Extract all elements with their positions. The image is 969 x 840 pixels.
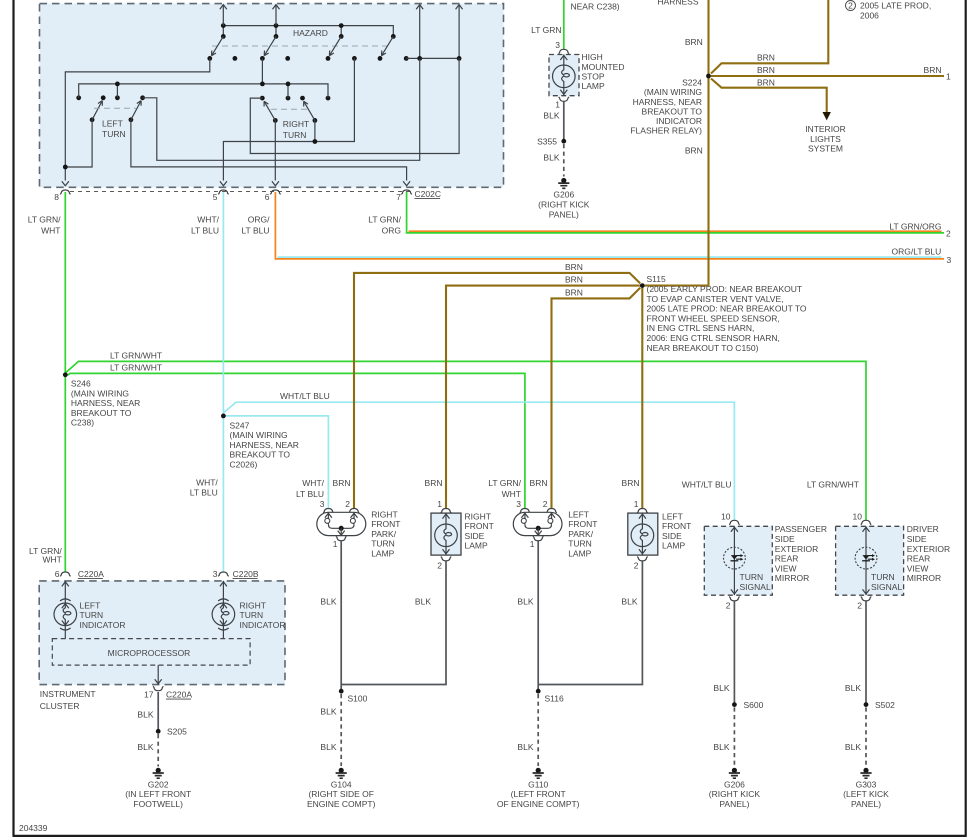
wire BLK: S600 to G206: [713, 707, 734, 766]
svg-text:CLUSTER: CLUSTER: [40, 701, 80, 711]
svg-text:C220A: C220A: [166, 690, 192, 700]
svg-text:10: 10: [853, 511, 863, 521]
wire BLK: S205 to G202: [137, 734, 158, 767]
svg-text:3: 3: [213, 569, 218, 579]
wire ORG/LT BLU: pin 6 to right edge: [275, 192, 951, 265]
svg-text:VIEW: VIEW: [907, 563, 929, 573]
microprocessor: [52, 639, 250, 666]
svg-text:PASSENGER: PASSENGER: [775, 524, 827, 534]
svg-text:HARNESS: HARNESS: [657, 0, 698, 7]
wire BLK: left front park/turn lamp to S116: [517, 541, 538, 692]
svg-text:EXTERIOR: EXTERIOR: [775, 544, 818, 554]
svg-text:G202: G202: [148, 779, 169, 789]
svg-text:C220A: C220A: [78, 569, 104, 579]
svg-text:BREAKOUT TO: BREAKOUT TO: [71, 408, 132, 418]
wire BLK: passenger mirror to S600: [713, 601, 734, 705]
splice S224: [630, 74, 711, 136]
svg-text:WHT: WHT: [42, 555, 61, 565]
svg-text:1: 1: [555, 100, 560, 110]
splice S100: [339, 689, 368, 704]
svg-text:BLK: BLK: [543, 111, 559, 121]
wire BRN: S115 down to left front side lamp: [641, 288, 643, 509]
svg-text:C238): C238): [71, 418, 94, 428]
svg-text:TO EVAP CANISTER VENT VALVE,: TO EVAP CANISTER VENT VALVE,: [647, 294, 784, 304]
svg-text:HAZARD: HAZARD: [293, 28, 328, 38]
svg-text:BLK: BLK: [845, 742, 861, 752]
svg-text:FRONT: FRONT: [465, 521, 494, 531]
multifunction switch assembly box: [40, 4, 504, 188]
wire label LT GRN/WHT above cluster pin 6: [29, 546, 62, 565]
svg-text:TURN: TURN: [568, 539, 592, 549]
svg-text:TURN: TURN: [740, 572, 764, 582]
svg-text:HIGH: HIGH: [582, 52, 603, 62]
svg-text:6: 6: [55, 569, 60, 579]
wire BLK: driver mirror to S502: [845, 601, 866, 705]
svg-text:LT GRN/WHT: LT GRN/WHT: [110, 350, 162, 360]
svg-text:BRN: BRN: [924, 65, 942, 75]
wire WHT/LT BLU: pin 5 to S247 to cluster pin 3: [222, 192, 224, 572]
svg-text:2: 2: [848, 0, 853, 10]
svg-text:C202C: C202C: [415, 189, 441, 199]
svg-text:(RIGHT KICK: (RIGHT KICK: [538, 200, 590, 210]
svg-text:2: 2: [437, 560, 442, 570]
svg-text:17: 17: [144, 690, 154, 700]
wire BLK: stop lamp to S355: [543, 101, 563, 141]
svg-text:LT GRN: LT GRN: [531, 25, 561, 35]
svg-text:FRONT WHEEL SPEED SENSOR,: FRONT WHEEL SPEED SENSOR,: [647, 313, 780, 323]
svg-text:LT GRN/: LT GRN/: [488, 478, 521, 488]
svg-text:1: 1: [437, 499, 442, 509]
svg-text:INDICATOR: INDICATOR: [80, 620, 126, 630]
svg-text:MIRROR: MIRROR: [775, 573, 809, 583]
ground G202: [125, 768, 191, 809]
svg-text:BRN: BRN: [622, 478, 640, 488]
svg-text:BLK: BLK: [137, 742, 153, 752]
svg-text:(LEFT KICK: (LEFT KICK: [843, 789, 889, 799]
svg-text:FRONT: FRONT: [662, 521, 691, 531]
svg-text:S600: S600: [744, 700, 764, 710]
svg-text:LT GRN/: LT GRN/: [28, 215, 61, 225]
wire LT GRN: stop lamp feed: [531, 0, 564, 50]
svg-text:BREAKOUT TO: BREAKOUT TO: [230, 450, 291, 460]
wire BLK: S355 to G206: [543, 144, 563, 177]
svg-text:LT GRN/ORG: LT GRN/ORG: [889, 221, 941, 231]
ground G303: [843, 768, 889, 809]
hazard gang line: [212, 45, 391, 47]
svg-text:SIDE: SIDE: [465, 531, 485, 541]
svg-text:ENGINE COMPT): ENGINE COMPT): [307, 799, 376, 809]
svg-text:S100: S100: [348, 694, 368, 704]
svg-text:RIGHT: RIGHT: [240, 600, 266, 610]
splice S355: [537, 137, 566, 147]
svg-text:BLK: BLK: [415, 596, 431, 606]
svg-text:EXTERIOR: EXTERIOR: [907, 544, 950, 554]
ground G104: [307, 768, 376, 809]
svg-text:FRONT: FRONT: [568, 519, 597, 529]
splice S116: [536, 689, 564, 704]
svg-text:(MAIN WIRING: (MAIN WIRING: [230, 430, 288, 440]
svg-text:BLK: BLK: [137, 710, 153, 720]
svg-text:INDICATOR: INDICATOR: [240, 620, 286, 630]
svg-text:ORG/: ORG/: [248, 215, 270, 225]
wire label LT GRN/ORG (pin 7): [368, 215, 401, 236]
svg-text:OF ENGINE COMPT): OF ENGINE COMPT): [497, 799, 580, 809]
svg-text:BLK: BLK: [320, 596, 336, 606]
svg-text:G206: G206: [553, 190, 574, 200]
svg-text:ORG: ORG: [382, 225, 401, 235]
wire BLK: S100 to G104: [320, 694, 341, 766]
svg-text:BLK: BLK: [320, 742, 336, 752]
svg-text:G206: G206: [724, 779, 745, 789]
svg-text:PANEL): PANEL): [851, 799, 881, 809]
svg-text:LAMP: LAMP: [465, 541, 488, 551]
wire label WHT/LT BLU above cluster pin 3: [190, 478, 219, 498]
svg-text:SIDE: SIDE: [775, 534, 795, 544]
svg-text:LT GRN/: LT GRN/: [368, 215, 401, 225]
svg-text:BRN: BRN: [425, 478, 443, 488]
svg-text:LT BLU: LT BLU: [241, 225, 269, 235]
ground G206 (right kick panel): [709, 768, 761, 809]
right turn indicator: [212, 581, 285, 639]
svg-text:VIEW: VIEW: [775, 563, 797, 573]
wire: riser to left-turn blade tip: [143, 58, 420, 160]
svg-text:BRN: BRN: [530, 478, 548, 488]
svg-text:1: 1: [530, 539, 535, 549]
svg-text:MICROPROCESSOR: MICROPROCESSOR: [108, 648, 191, 658]
wire BRN: S224 branch to interior lights system: [711, 78, 846, 154]
svg-text:LT BLU: LT BLU: [296, 489, 324, 499]
splice S115: [640, 274, 807, 353]
svg-text:BLK: BLK: [713, 683, 729, 693]
svg-text:S116: S116: [545, 694, 564, 704]
svg-text:LAMP: LAMP: [582, 81, 605, 91]
svg-text:HARNESS, NEAR: HARNESS, NEAR: [633, 97, 702, 107]
wire BRN: S115 branch to right front park/turn lamp: [354, 262, 640, 509]
svg-text:S502: S502: [875, 700, 895, 710]
wire WHT/LT BLU upper branch to passenger mirror: [224, 391, 735, 520]
svg-text:LAMP: LAMP: [568, 549, 591, 559]
svg-text:5: 5: [213, 192, 218, 202]
wire BRN: S224 branch up to interior harness: [711, 0, 828, 74]
svg-text:LT BLU: LT BLU: [191, 225, 219, 235]
svg-text:TURN: TURN: [371, 539, 395, 549]
svg-text:3: 3: [947, 255, 952, 265]
connector C202C: [54, 189, 441, 202]
wire LT GRN/WHT lower branch to left front park/turn lamp: [65, 363, 525, 510]
svg-text:S246: S246: [71, 379, 91, 389]
svg-text:LEFT: LEFT: [662, 511, 683, 521]
svg-text:NEAR C238): NEAR C238): [571, 2, 620, 12]
wire BLK: cluster pin 17 to S205: [137, 692, 158, 731]
svg-text:BLK: BLK: [713, 742, 729, 752]
svg-text:SIGNAL: SIGNAL: [871, 582, 902, 592]
wire labels above lamp row: [296, 478, 859, 499]
wire LT GRN/ORG: pin 7 to right edge: [407, 192, 951, 239]
svg-text:WHT/: WHT/: [196, 478, 218, 488]
svg-text:G110: G110: [528, 779, 548, 789]
svg-text:3: 3: [320, 499, 325, 509]
svg-text:(IN LEFT FRONT: (IN LEFT FRONT: [125, 789, 191, 799]
svg-text:C220B: C220B: [233, 569, 259, 579]
svg-text:(RIGHT KICK: (RIGHT KICK: [709, 789, 761, 799]
svg-text:S355: S355: [537, 137, 557, 147]
wire: pin 5 net (right-turn pivot 2, hazard P3 right contact): [220, 58, 355, 185]
svg-text:LAMP: LAMP: [371, 549, 394, 559]
svg-text:10: 10: [721, 511, 731, 521]
left turn switch: [76, 95, 145, 139]
svg-text:2006: 2006: [860, 11, 879, 21]
svg-text:8: 8: [54, 192, 59, 202]
svg-text:BRN: BRN: [565, 262, 583, 272]
svg-text:6: 6: [265, 192, 270, 202]
svg-text:BLK: BLK: [621, 596, 637, 606]
svg-text:BRN: BRN: [565, 275, 583, 285]
svg-text:MIRROR: MIRROR: [907, 573, 941, 583]
svg-text:LAMP: LAMP: [662, 541, 685, 551]
right turn switch: [260, 96, 331, 140]
svg-text:BRN: BRN: [333, 478, 351, 488]
cluster ground pin 17: [144, 665, 192, 699]
svg-text:SIDE: SIDE: [907, 534, 927, 544]
svg-text:SIGNAL: SIGNAL: [740, 582, 771, 592]
svg-text:2: 2: [946, 229, 951, 239]
svg-text:LT GRN/WHT: LT GRN/WHT: [110, 363, 162, 373]
svg-text:(RIGHT SIDE OF: (RIGHT SIDE OF: [308, 789, 374, 799]
svg-text:BLK: BLK: [320, 706, 336, 716]
svg-text:PANEL): PANEL): [549, 209, 579, 219]
svg-text:TURN: TURN: [102, 129, 126, 139]
wire WHT/LT BLU branch to right front park/turn lamp: [223, 416, 328, 509]
svg-text:S205: S205: [167, 727, 187, 737]
cluster connector pins C220A / C220B: [55, 569, 259, 579]
ground G110: [497, 768, 580, 809]
svg-text:BRN: BRN: [757, 65, 775, 75]
wire BLK: S116 to G110: [517, 694, 538, 766]
svg-text:(2005 EARLY PROD: NEAR BREAKOU: (2005 EARLY PROD: NEAR BREAKOUT: [647, 284, 803, 294]
svg-text:LT GRN/WHT: LT GRN/WHT: [807, 480, 859, 490]
svg-text:BLK: BLK: [517, 742, 533, 752]
svg-text:204339: 204339: [19, 823, 48, 833]
wire BRN: S115 branch to right front side lamp: [446, 275, 640, 509]
svg-text:G303: G303: [856, 779, 877, 789]
svg-text:RIGHT: RIGHT: [283, 119, 309, 129]
hazard feed arrows to flasher: [220, 5, 280, 26]
splice S502: [864, 700, 896, 710]
svg-text:2: 2: [345, 499, 350, 509]
svg-text:BRN: BRN: [685, 37, 703, 47]
svg-text:3: 3: [516, 499, 521, 509]
svg-text:BRN: BRN: [565, 287, 583, 297]
svg-text:2: 2: [634, 560, 639, 570]
left front side lamp: [628, 499, 691, 571]
svg-text:7: 7: [396, 192, 401, 202]
svg-text:FLASHER RELAY): FLASHER RELAY): [630, 126, 702, 136]
svg-text:S115: S115: [647, 274, 666, 284]
wire: turn feed risers (hazard P4 right contact link): [406, 5, 462, 61]
wire BLK: S502 to G303: [845, 707, 866, 766]
svg-text:WHT/: WHT/: [302, 478, 324, 488]
svg-text:2005 LATE PROD: NEAR BREAKOUT: 2005 LATE PROD: NEAR BREAKOUT TO: [647, 304, 807, 314]
svg-text:ORG/LT BLU: ORG/LT BLU: [892, 247, 942, 257]
svg-text:WHT: WHT: [502, 489, 521, 499]
svg-text:C2026): C2026): [230, 460, 258, 470]
wire BRN: main vertical from harness to S115: [645, 0, 709, 286]
wire BRN: S224 branch to right edge (1): [711, 65, 951, 81]
wire label ORG/LT BLU (pin 6): [241, 215, 270, 236]
passenger side mirror turn signal: [704, 511, 827, 610]
svg-text:RIGHT: RIGHT: [371, 509, 397, 519]
right front side lamp: [431, 499, 494, 571]
wire LT GRN/WHT: pin 8 to S246 to cluster pin 6: [64, 192, 66, 572]
svg-text:BLK: BLK: [543, 153, 559, 163]
svg-text:STOP: STOP: [582, 72, 605, 82]
wire label LT GRN/WHT (pin 8): [28, 215, 61, 236]
wire: riser to right-turn contact A: [250, 58, 459, 153]
note: 2005 late prod: [846, 0, 932, 20]
svg-text:MOUNTED: MOUNTED: [582, 62, 625, 72]
svg-text:PARK/: PARK/: [371, 529, 397, 539]
wire: pin 8 net (hazard P1 left contact, left-turn pivot, pin 8): [62, 58, 210, 185]
wire BLK: left front side lamp to S116: [538, 561, 642, 685]
ground G206 (stop lamp, right kick panel): [538, 178, 590, 219]
svg-text:(MAIN WIRING: (MAIN WIRING: [71, 388, 129, 398]
wire BLK: right front side lamp to S100: [341, 561, 446, 685]
svg-text:PANEL): PANEL): [719, 799, 749, 809]
svg-text:LIGHTS: LIGHTS: [810, 134, 841, 144]
svg-text:INTERIOR: INTERIOR: [805, 124, 846, 134]
svg-text:NEAR BREAKOUT TO C150): NEAR BREAKOUT TO C150): [647, 343, 759, 353]
svg-text:2006: ENG CTRL SENSOR HARN,: 2006: ENG CTRL SENSOR HARN,: [647, 333, 780, 343]
splice S600: [732, 700, 764, 710]
svg-text:LEFT: LEFT: [80, 600, 101, 610]
wire BLK: right front park/turn lamp to S100: [320, 541, 341, 692]
splice S246: [63, 372, 140, 427]
splice S205: [156, 727, 187, 737]
wire: hazard bus2 (common link): [79, 58, 328, 98]
svg-text:BRN: BRN: [757, 52, 775, 62]
svg-text:2: 2: [543, 499, 548, 509]
svg-text:1: 1: [333, 539, 338, 549]
svg-text:WHT: WHT: [41, 225, 60, 235]
svg-text:FRONT: FRONT: [371, 519, 400, 529]
svg-text:3: 3: [555, 40, 560, 50]
instrument cluster: [39, 581, 285, 711]
svg-text:IN ENG CTRL SENS HARN,: IN ENG CTRL SENS HARN,: [647, 323, 755, 333]
svg-text:1: 1: [946, 72, 951, 82]
svg-text:HARNESS, NEAR: HARNESS, NEAR: [71, 398, 140, 408]
high mounted stop lamp: [549, 49, 624, 109]
hazard switch poles (pivots, blades, contacts): [207, 34, 408, 61]
svg-text:2: 2: [857, 601, 862, 611]
svg-text:HARNESS, NEAR: HARNESS, NEAR: [230, 440, 299, 450]
svg-text:BLK: BLK: [517, 596, 533, 606]
right front park/turn lamp: [317, 499, 401, 559]
svg-text:BLK: BLK: [845, 683, 861, 693]
svg-text:BRN: BRN: [685, 146, 703, 156]
svg-text:INDICATOR: INDICATOR: [656, 116, 702, 126]
wire: pin 7 net (left-turn pivot 2): [131, 120, 410, 186]
svg-text:BRN: BRN: [757, 78, 775, 88]
svg-text:2: 2: [726, 601, 731, 611]
wire label WHT/LT BLU (pin 5): [191, 215, 220, 236]
svg-text:TURN: TURN: [871, 572, 895, 582]
svg-text:WHT/LT BLU: WHT/LT BLU: [682, 480, 732, 490]
svg-text:WHT/LT BLU: WHT/LT BLU: [280, 391, 330, 401]
svg-text:PARK/: PARK/: [568, 529, 594, 539]
left turn indicator: [54, 581, 125, 639]
svg-text:TURN: TURN: [283, 130, 307, 140]
svg-text:SIDE: SIDE: [662, 531, 682, 541]
svg-text:LT BLU: LT BLU: [190, 487, 218, 497]
svg-text:REAR: REAR: [907, 554, 931, 564]
svg-text:2005 LATE PROD,: 2005 LATE PROD,: [860, 1, 931, 11]
svg-text:LEFT: LEFT: [102, 119, 123, 129]
svg-text:INSTRUMENT: INSTRUMENT: [40, 689, 96, 699]
svg-text:WHT/: WHT/: [197, 215, 219, 225]
wire: pin 6 net (right-turn pivot 1): [272, 120, 279, 185]
svg-text:S247: S247: [230, 420, 250, 430]
svg-text:FOOTWELL): FOOTWELL): [133, 799, 183, 809]
wire LT GRN/WHT upper branch to driver mirror: [66, 350, 866, 520]
svg-text:S224: S224: [682, 78, 702, 88]
svg-text:TURN: TURN: [240, 610, 264, 620]
svg-text:BREAKOUT TO: BREAKOUT TO: [642, 106, 703, 116]
left front park/turn lamp: [513, 499, 597, 559]
svg-text:(LEFT FRONT: (LEFT FRONT: [511, 789, 566, 799]
splice S247: [221, 414, 299, 470]
svg-text:(MAIN WIRING: (MAIN WIRING: [644, 87, 702, 97]
driver side mirror turn signal: [836, 511, 951, 610]
wire BRN: S115 branch to left front park/turn lamp: [552, 287, 641, 509]
hazard switch bus: [221, 23, 393, 36]
svg-text:1: 1: [634, 499, 639, 509]
svg-text:REAR: REAR: [775, 554, 799, 564]
svg-text:TURN: TURN: [80, 610, 104, 620]
svg-text:G104: G104: [331, 779, 352, 789]
svg-text:SYSTEM: SYSTEM: [808, 144, 843, 154]
svg-text:LEFT: LEFT: [568, 509, 589, 519]
svg-text:RIGHT: RIGHT: [465, 511, 491, 521]
svg-text:DRIVER: DRIVER: [907, 524, 939, 534]
